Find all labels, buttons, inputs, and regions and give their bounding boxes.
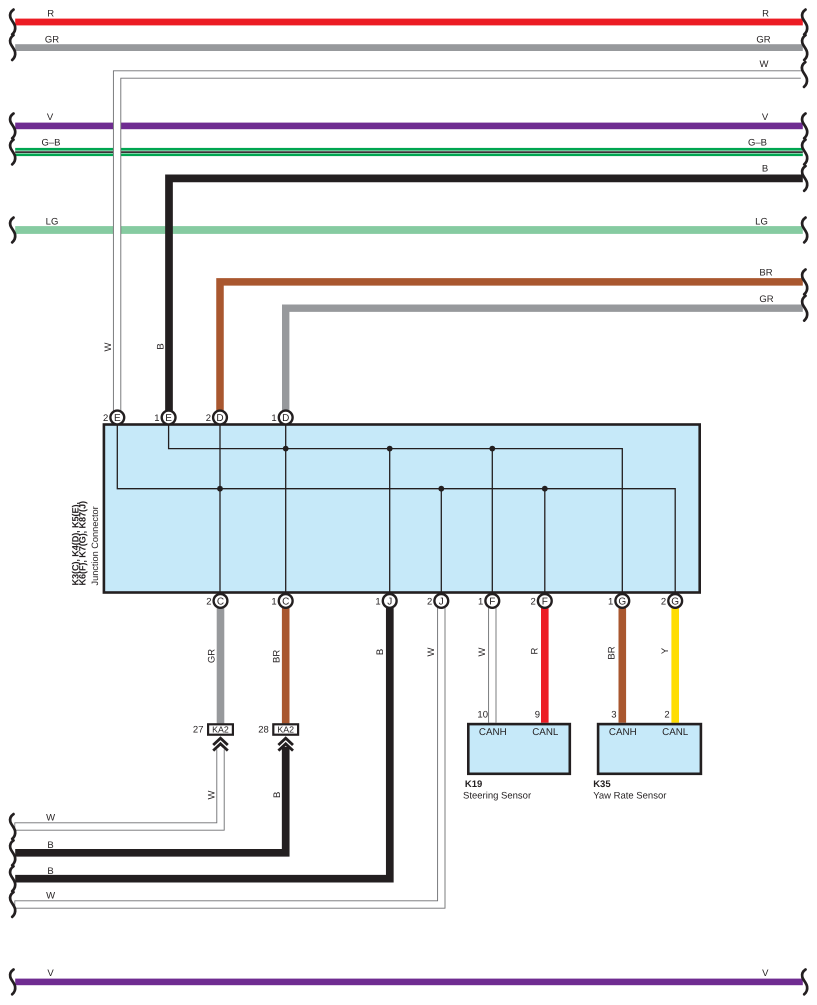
connector KA2 pin 27 — [193, 724, 233, 735]
shield chevrons below KA2 28 — [278, 738, 293, 750]
svg-text:1: 1 — [608, 596, 613, 607]
svg-text:J: J — [387, 596, 392, 607]
wire W (KA2 27 down and left) — [10, 749, 220, 839]
pin 2F — [531, 594, 552, 608]
svg-text:BR: BR — [607, 646, 618, 659]
wire W (white, from right top down to pin 2E) — [103, 59, 807, 411]
wire BR (brown, from right down to pin 2D) — [220, 268, 807, 412]
svg-text:C: C — [217, 596, 224, 607]
svg-text:2: 2 — [664, 709, 669, 720]
wire G-B (green with black stripe) — [10, 138, 807, 165]
wire Y (2G to K35 CANL) — [660, 603, 675, 723]
svg-text:E: E — [114, 413, 121, 424]
svg-text:Yaw Rate Sensor: Yaw Rate Sensor — [593, 790, 666, 801]
svg-text:B: B — [156, 343, 167, 349]
svg-text:J: J — [439, 596, 444, 607]
pin 1E — [154, 411, 175, 425]
svg-text:9: 9 — [535, 709, 540, 720]
svg-text:W: W — [103, 342, 114, 351]
svg-text:R: R — [530, 647, 541, 654]
svg-text:CANH: CANH — [609, 727, 637, 738]
svg-text:W: W — [760, 59, 769, 70]
svg-text:1: 1 — [478, 596, 483, 607]
svg-text:B: B — [762, 164, 768, 175]
svg-text:V: V — [762, 112, 769, 123]
internal bus line 1 (1E-1D-1J-1F-1G) — [169, 419, 623, 596]
pin 1F — [478, 594, 499, 608]
wire W (1F to K19 CANH) — [477, 603, 492, 723]
svg-text:F: F — [542, 596, 548, 607]
svg-text:10: 10 — [477, 709, 488, 720]
svg-text:W: W — [206, 790, 217, 799]
svg-text:Steering Sensor: Steering Sensor — [463, 790, 531, 801]
svg-text:CANL: CANL — [662, 727, 689, 738]
svg-text:CANL: CANL — [532, 727, 559, 738]
internal wire 1D-1C — [285, 419, 287, 596]
svg-text:F: F — [489, 596, 495, 607]
svg-text:1: 1 — [271, 596, 276, 607]
svg-text:1: 1 — [375, 596, 380, 607]
svg-text:R: R — [47, 8, 54, 19]
svg-text:CANH: CANH — [479, 727, 507, 738]
wire B (1J down and left) — [10, 603, 390, 891]
svg-text:Junction Connector: Junction Connector — [90, 506, 100, 585]
svg-text:E: E — [165, 413, 172, 424]
component K19 Steering Sensor — [463, 709, 570, 801]
internal bus line 2 (2E-2D-2J-2F-2G) — [117, 419, 675, 596]
svg-text:KA2: KA2 — [212, 725, 229, 735]
wire R (red, top) — [10, 8, 807, 34]
wire B (KA2 28 down and left) — [10, 747, 286, 865]
svg-text:B: B — [47, 866, 53, 877]
svg-text:2: 2 — [427, 596, 432, 607]
wire V (violet) — [10, 112, 807, 138]
svg-text:Y: Y — [660, 647, 671, 654]
svg-text:D: D — [216, 413, 223, 424]
svg-text:V: V — [762, 968, 769, 979]
wire BR (1G to K35 CANH) — [607, 603, 623, 723]
svg-text:C: C — [282, 596, 289, 607]
svg-text:2: 2 — [206, 413, 211, 424]
pin 1J — [375, 594, 396, 608]
svg-text:G: G — [618, 596, 626, 607]
wire V (violet, bottom) — [10, 968, 807, 994]
wire BR (1C to KA2 28) — [272, 603, 286, 723]
svg-text:LG: LG — [755, 217, 768, 228]
svg-text:G–B: G–B — [41, 138, 60, 149]
junction dot at 2J — [438, 486, 444, 492]
svg-text:28: 28 — [258, 725, 269, 736]
svg-text:D: D — [282, 413, 289, 424]
svg-text:G–B: G–B — [748, 138, 767, 149]
svg-text:KA2: KA2 — [277, 725, 294, 735]
svg-text:W: W — [46, 891, 55, 902]
svg-text:GR: GR — [206, 649, 217, 663]
svg-text:W: W — [46, 812, 55, 823]
svg-text:BR: BR — [272, 650, 283, 663]
svg-text:2: 2 — [531, 596, 536, 607]
svg-text:LG: LG — [46, 217, 59, 228]
pin 1G — [608, 594, 629, 608]
wire B (black heavy, from right down to pin 1E) — [156, 164, 808, 412]
svg-text:GR: GR — [759, 294, 773, 305]
wire LG (light green) — [10, 217, 807, 243]
svg-text:K35: K35 — [593, 779, 611, 790]
internal wire to 1F — [491, 449, 493, 596]
junction connector box K3/K4/K5/K6/K7/K87 — [70, 425, 699, 593]
svg-text:GR: GR — [45, 34, 59, 45]
svg-text:V: V — [47, 112, 54, 123]
junction dot at 2F — [542, 486, 548, 492]
junction dot at 2D — [217, 486, 223, 492]
svg-text:W: W — [426, 647, 437, 656]
pin 2D — [206, 411, 227, 425]
wire R (2F to K19 CANL) — [530, 603, 545, 723]
wire GR (gray, top) — [10, 34, 807, 60]
svg-text:K6(F), K7(G), K87(J): K6(F), K7(G), K87(J) — [77, 501, 87, 585]
svg-text:1: 1 — [154, 413, 159, 424]
pin 2E — [103, 411, 124, 425]
pin 2C — [206, 594, 227, 608]
svg-text:V: V — [47, 968, 54, 979]
internal wire to 1J — [389, 449, 391, 596]
internal wire 2D-2C — [219, 419, 221, 596]
junction dot at 1D — [283, 446, 289, 452]
pin 2G — [661, 594, 682, 608]
pin 1D — [271, 411, 292, 425]
component K35 Yaw Rate Sensor — [593, 709, 701, 801]
pin 2J — [427, 594, 448, 608]
wire W (2J down and left) — [10, 603, 441, 917]
svg-text:2: 2 — [661, 596, 666, 607]
svg-text:3: 3 — [611, 709, 616, 720]
wire GR (2C to KA2 27) — [206, 603, 220, 723]
svg-text:2: 2 — [103, 413, 108, 424]
svg-text:GR: GR — [756, 34, 770, 45]
shield chevrons below KA2 27 — [213, 738, 228, 750]
connector KA2 pin 28 — [258, 724, 298, 735]
svg-text:27: 27 — [193, 725, 204, 736]
internal wire to 2F — [544, 489, 546, 596]
junction dot at 1J — [387, 446, 393, 452]
svg-text:K19: K19 — [465, 779, 482, 790]
junction dot at 1F — [489, 446, 495, 452]
svg-text:2: 2 — [206, 596, 211, 607]
svg-text:W: W — [477, 647, 488, 656]
pin 1C — [271, 594, 292, 608]
svg-text:G: G — [671, 596, 679, 607]
svg-text:R: R — [762, 8, 769, 19]
wire GR (gray, from right down to pin 1D) — [286, 294, 807, 412]
svg-text:1: 1 — [271, 413, 276, 424]
svg-text:B: B — [47, 840, 53, 851]
internal wire to 2J — [440, 489, 442, 596]
svg-text:B: B — [272, 792, 283, 798]
svg-text:BR: BR — [759, 268, 772, 279]
svg-text:B: B — [375, 649, 386, 655]
